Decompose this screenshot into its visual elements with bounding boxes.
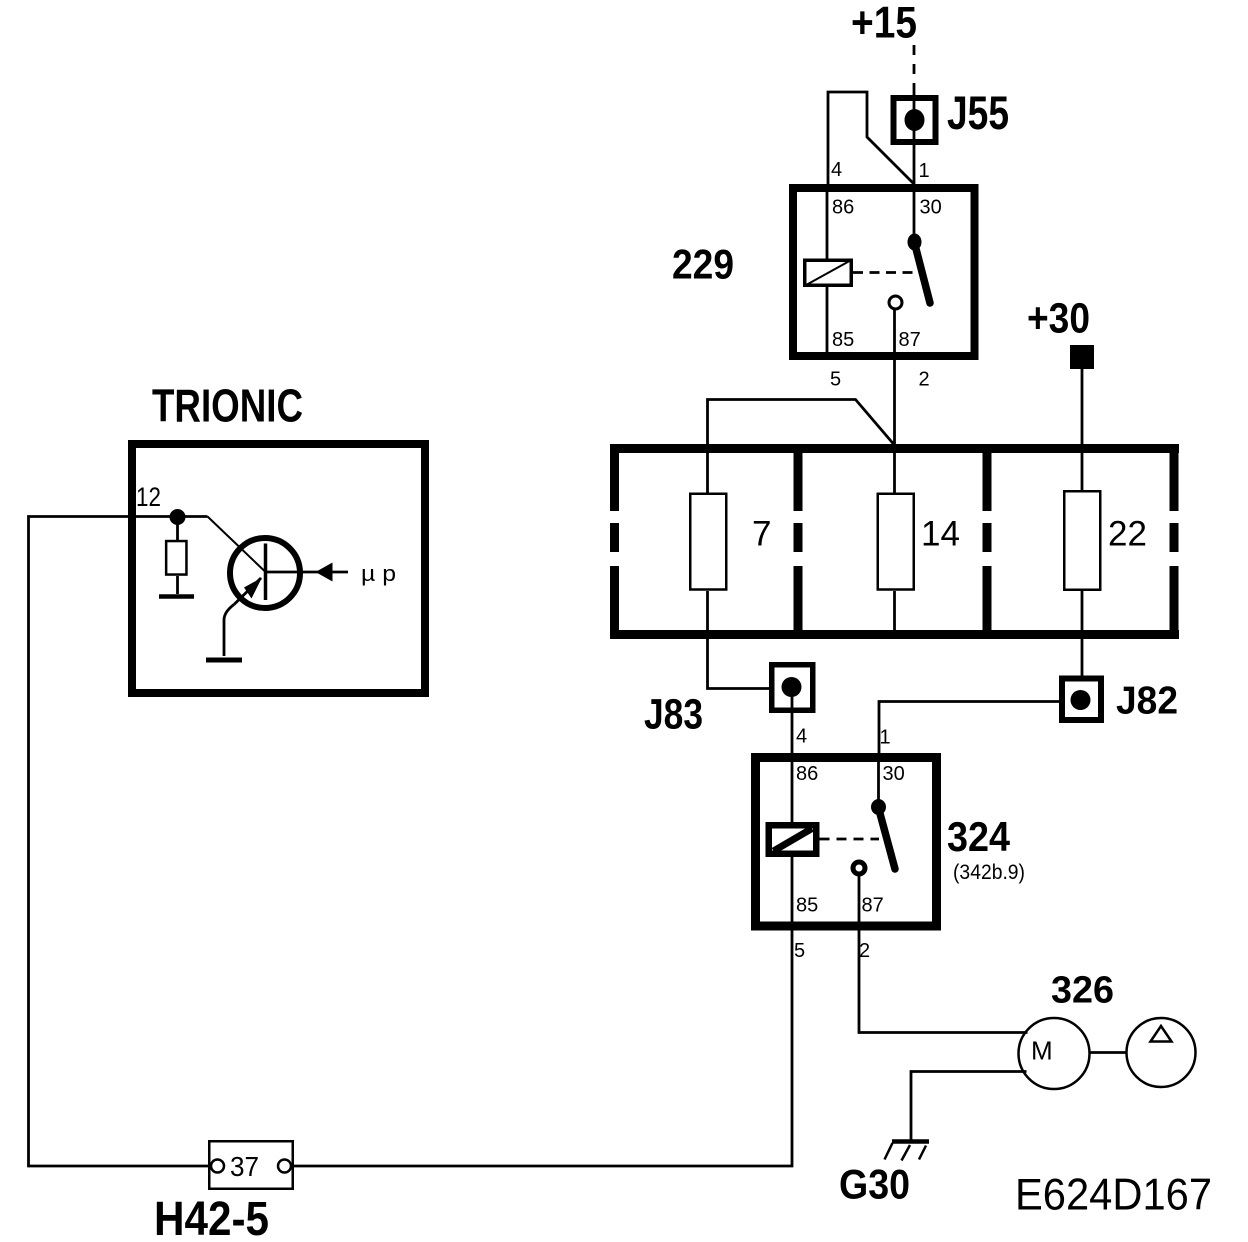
svg-text:85: 85 <box>796 895 818 917</box>
fusebox right dashed edge <box>1170 444 1179 639</box>
connector J82 <box>1062 679 1101 721</box>
fusebox left dashed edge <box>610 444 619 639</box>
wire J83 to relay 324 pin 4 <box>791 697 794 754</box>
connector J83 contact dot <box>782 677 802 697</box>
svg-text:324: 324 <box>947 813 1011 860</box>
relay 324 box <box>756 758 937 927</box>
TRIONIC ECU box <box>132 444 425 693</box>
relay 324 coil wire 86 <box>791 753 794 822</box>
svg-text:2: 2 <box>919 369 930 391</box>
wire motor to ground G30 <box>911 1072 1027 1141</box>
svg-text:4: 4 <box>796 726 807 748</box>
relay 324 switch arm <box>879 808 896 869</box>
svg-text:5: 5 <box>830 369 841 391</box>
wire pin 12 into box <box>29 517 211 1167</box>
relay 229 switch arm <box>915 243 931 303</box>
pump circle <box>1127 1018 1196 1087</box>
transistor emitter lead <box>234 578 261 605</box>
wire relay 229 pin 2 to fuse 14 <box>893 308 896 493</box>
svg-text:326: 326 <box>1051 970 1114 1012</box>
svg-text:229: 229 <box>672 241 734 288</box>
fusebox divider 2 <box>983 444 992 639</box>
svg-text:86: 86 <box>832 197 854 219</box>
wire J55 to relay 229 pin 30 <box>913 93 916 240</box>
emitter arrowhead <box>244 578 262 599</box>
transistor Q circle <box>230 538 300 608</box>
fuse 7 <box>690 494 726 590</box>
relay 229 coil <box>805 260 852 285</box>
svg-text:H42-5: H42-5 <box>154 1193 269 1242</box>
svg-text:85: 85 <box>832 329 854 351</box>
connector J83 <box>772 665 813 711</box>
pump triangle <box>1151 1026 1172 1042</box>
fusebox divider 1 <box>794 444 803 639</box>
fusebox bottom edge <box>610 630 1179 639</box>
svg-text:30: 30 <box>883 763 905 785</box>
wire branch to fuse 7 <box>708 400 894 494</box>
svg-text:G30: G30 <box>839 1161 910 1208</box>
wire fuse 22 to J82 <box>1081 591 1084 676</box>
connector H42-5 right terminal <box>278 1160 291 1173</box>
svg-text:4: 4 <box>831 159 842 181</box>
resistor bottom lead <box>176 576 179 594</box>
connector J55 <box>894 98 936 142</box>
transistor base lead <box>208 517 265 572</box>
svg-text:14: 14 <box>921 515 960 554</box>
fuse 14 <box>878 494 914 590</box>
fuse 22 <box>1064 491 1100 590</box>
ground bar under emitter <box>206 658 242 663</box>
connector J55 contact dot <box>905 109 925 131</box>
transistor base bar <box>264 544 268 601</box>
svg-text:37: 37 <box>230 1151 259 1182</box>
resistor body <box>166 541 186 575</box>
transistor collector lead to microprocessor <box>266 571 349 574</box>
wire relay 324 pin 2 to motor <box>859 875 1028 1033</box>
relay 324 coil diagonal <box>774 829 813 852</box>
relay 229 dashed actuate link <box>853 271 914 274</box>
relay 229 box <box>793 188 975 356</box>
svg-text:(342b.9): (342b.9) <box>953 861 1025 884</box>
connector J82 contact dot <box>1071 690 1091 710</box>
svg-text:J55: J55 <box>947 86 1009 139</box>
svg-text:M: M <box>1031 1036 1053 1066</box>
svg-text:TRIONIC: TRIONIC <box>152 380 303 432</box>
fusebox top edge <box>610 444 1179 453</box>
node +30 terminal square <box>1070 345 1094 369</box>
ground bar under resistor <box>159 594 194 599</box>
svg-text:+30: +30 <box>1027 295 1090 343</box>
svg-text:12: 12 <box>136 482 161 512</box>
svg-text:2: 2 <box>859 940 870 962</box>
relay 229 coil wire 85 <box>826 287 829 356</box>
relay 229 coil diagonal <box>807 261 850 285</box>
wire J82 to relay 324 pin 1 <box>879 702 1059 754</box>
svg-text:86: 86 <box>796 763 818 785</box>
svg-text:+15: +15 <box>851 0 917 48</box>
relay 324 contact 87 circle <box>853 862 865 874</box>
motor M circle <box>1019 1018 1090 1089</box>
svg-text:7: 7 <box>752 515 771 554</box>
connector H42-5 left terminal <box>211 1160 224 1173</box>
svg-text:µ p: µ p <box>361 561 396 586</box>
relay 229 contact 87 circle <box>889 296 902 309</box>
collector arrowhead <box>316 563 333 582</box>
svg-text:E624D167: E624D167 <box>1015 1171 1212 1220</box>
connector H42-5 <box>209 1141 293 1189</box>
relay 324 coil <box>769 825 817 854</box>
wire fuse 14 stub <box>893 591 896 631</box>
wire jog pin4 to pin1 <box>828 92 914 185</box>
svg-text:30: 30 <box>920 197 942 219</box>
wire dashed from +15 <box>913 45 916 93</box>
relay 324 switch wire 30 <box>877 753 880 804</box>
relay 229 switch pivot <box>908 234 922 251</box>
ground hatches <box>885 1143 927 1161</box>
svg-text:87: 87 <box>862 895 884 917</box>
node junction dot pin12 <box>170 509 186 525</box>
svg-text:J83: J83 <box>644 691 703 739</box>
relay 324 dashed actuate link <box>820 838 880 841</box>
resistor R <box>176 524 179 540</box>
svg-text:1: 1 <box>880 727 891 749</box>
wire H42-5 to relay 324 pin 5 <box>293 857 793 1166</box>
svg-text:22: 22 <box>1108 515 1147 554</box>
relay 324 switch pivot <box>871 799 886 815</box>
emitter to ground <box>224 605 234 657</box>
svg-text:J82: J82 <box>1116 680 1178 723</box>
wire fuse 7 to J83 <box>708 591 786 689</box>
svg-text:5: 5 <box>794 940 805 962</box>
ground G30 symbol <box>892 1139 929 1144</box>
wire +30 to fuse 22 <box>1081 369 1084 490</box>
motor-pump link <box>1090 1051 1127 1054</box>
svg-text:87: 87 <box>899 329 921 351</box>
relay 229 coil wire 86 <box>826 188 829 259</box>
svg-text:1: 1 <box>919 160 930 182</box>
